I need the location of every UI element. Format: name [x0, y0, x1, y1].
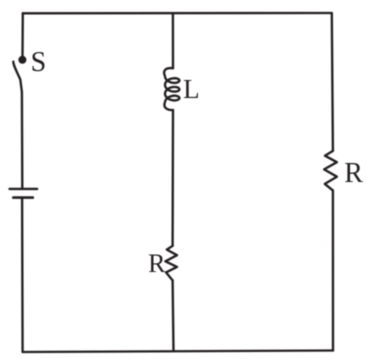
wire middle bottom segment — [171, 280, 174, 351]
wire left top segment — [21, 13, 24, 56]
battery cell: long plate — [10, 188, 38, 190]
wire right top segment — [332, 13, 333, 151]
wire left middle segment — [21, 92, 24, 188]
battery cell: short plate — [13, 196, 33, 199]
wire left bottom segment — [21, 199, 24, 352]
svg-text:S: S — [31, 47, 47, 78]
wire middle segment — [171, 110, 174, 246]
resistor R right zigzag — [324, 151, 337, 191]
wire bottom — [23, 351, 333, 353]
switch S — [18, 56, 26, 64]
svg-text:R: R — [148, 249, 166, 278]
svg-text:L: L — [183, 74, 200, 104]
wire middle top segment — [172, 13, 174, 68]
svg-text:R: R — [344, 158, 363, 189]
wire top — [23, 12, 332, 15]
resistor R middle zigzag — [165, 246, 177, 281]
inductor L coil — [164, 68, 179, 110]
wire right bottom segment — [332, 190, 334, 350]
